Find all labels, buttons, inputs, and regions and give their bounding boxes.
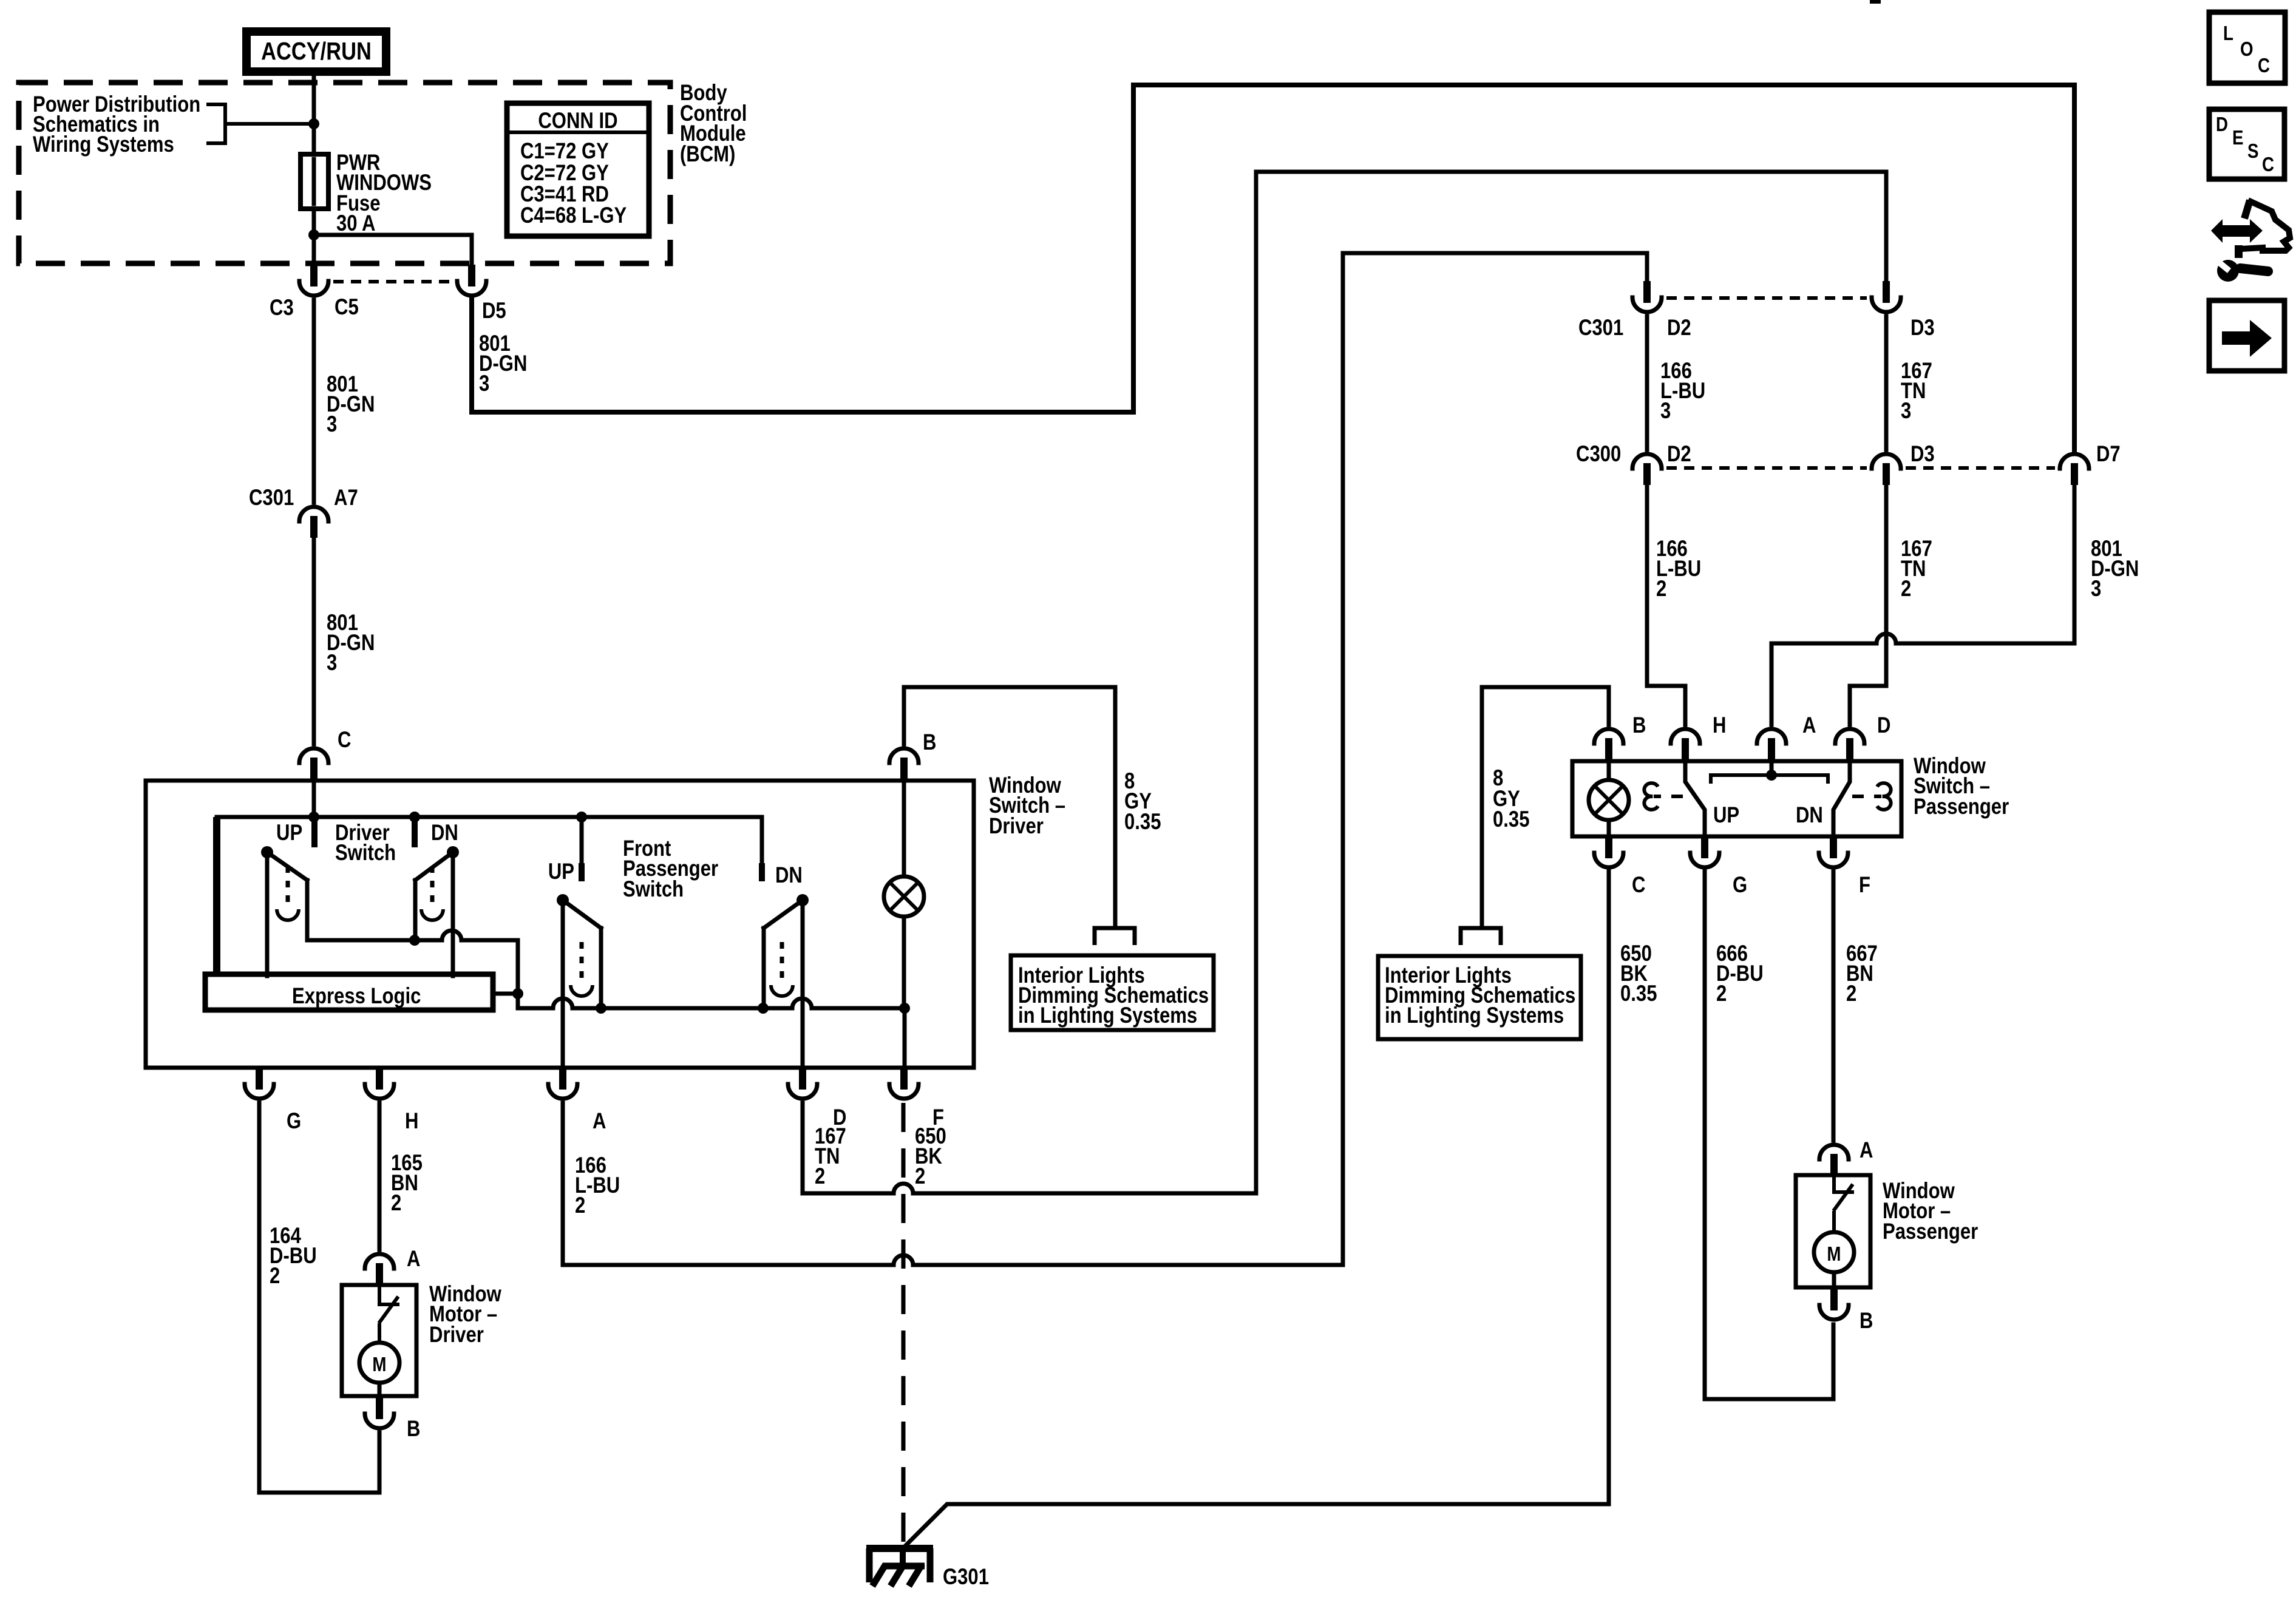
wire 167 TN 3: [1884, 316, 1889, 450]
svg-text:Wiring Systems: Wiring Systems: [33, 132, 174, 157]
svg-text:(BCM): (BCM): [680, 142, 735, 167]
mechanical link bracket: [1711, 775, 1828, 784]
svg-text:G: G: [287, 1109, 301, 1134]
wire passenger section common rail: [518, 1006, 905, 1011]
svg-text:ACCY/RUN: ACCY/RUN: [261, 38, 372, 65]
label 801 D-GN 3: [327, 372, 375, 437]
svg-text:C: C: [338, 728, 351, 753]
connector D passenger switch: [1835, 729, 1864, 760]
svg-text:UP: UP: [548, 859, 574, 884]
svg-text:30 A: 30 A: [336, 211, 375, 236]
connector H passenger switch: [1671, 729, 1700, 760]
svg-text:D: D: [2216, 114, 2228, 136]
icon arrow: [2209, 300, 2284, 371]
svg-text:Passenger: Passenger: [1883, 1219, 1978, 1244]
wire D passenger DN pivot to connector: [801, 900, 805, 1068]
label Body Control Module (BCM): [680, 81, 747, 167]
module BCM dashed outline: [19, 83, 670, 263]
svg-text:D2: D2: [1667, 316, 1691, 341]
label 666 D-BU 2: [1716, 941, 1764, 1006]
wire 166 driver A to C301 D2: [563, 253, 1647, 1265]
label 801 D-GN 3 (D5 branch): [479, 331, 527, 396]
connector B passenger switch: [1594, 729, 1623, 760]
wire dashed connector row C3: [333, 280, 452, 283]
wire hop over 167: [1877, 634, 1896, 643]
svg-text:Express Logic: Express Logic: [292, 984, 421, 1009]
svg-text:3: 3: [479, 371, 489, 396]
connector C passenger switch: [1594, 836, 1623, 867]
wire hop at ground wire: [894, 1184, 913, 1193]
svg-text:B: B: [923, 730, 936, 755]
spring return UP driver: [277, 866, 299, 920]
wire DN pivot to express logic: [451, 852, 455, 976]
connector G passenger switch: [1690, 836, 1719, 867]
switch lever UP driver: [261, 846, 273, 858]
connector A driver switch: [548, 1068, 577, 1099]
svg-text:2: 2: [1846, 981, 1856, 1006]
pointer to interior lights schematic: [1461, 928, 1501, 945]
connector C301 D3: [1872, 281, 1901, 312]
contact UP driver: [311, 819, 318, 844]
svg-text:C301: C301: [249, 486, 294, 510]
switch lever DN passenger section: [796, 894, 809, 906]
switch lever UP passenger: [1685, 761, 1705, 836]
connector C301 D2: [1632, 281, 1662, 312]
svg-text:2: 2: [575, 1193, 585, 1218]
svg-text:D2: D2: [1667, 442, 1691, 467]
svg-text:G301: G301: [943, 1565, 989, 1590]
wire C into box: [312, 781, 316, 817]
wire hop at ground wire: [894, 1255, 913, 1265]
svg-text:B: B: [1860, 1309, 1873, 1334]
connector C3/C5: [299, 265, 328, 296]
svg-text:D3: D3: [1911, 316, 1935, 341]
svg-text:M: M: [372, 1354, 386, 1376]
label 8 GY 0.35: [1493, 766, 1529, 832]
wire lever common rail: [307, 940, 518, 1008]
wire hop over A wire: [553, 998, 572, 1008]
wire 8 GY passenger lamp feed: [1482, 687, 1609, 927]
box Interior Lights Dimming Schematics: [1378, 956, 1581, 1039]
connector F passenger switch: [1819, 836, 1848, 867]
connector B window motor driver: [365, 1397, 394, 1428]
connector C driver switch: [299, 748, 328, 779]
svg-text:UP: UP: [1713, 803, 1739, 828]
label 167 TN 2: [815, 1124, 846, 1189]
label Power Distribution Schematics in Wiring Systems: [33, 92, 200, 157]
driver switch internal feed rail: [217, 815, 762, 819]
connector H driver switch: [365, 1068, 394, 1099]
connector C300 D2: [1632, 454, 1662, 485]
label 801 D-GN 3: [327, 611, 375, 676]
wire 166 label left run: [575, 1153, 620, 1218]
node branch to D5: [308, 229, 319, 240]
svg-text:Passenger: Passenger: [1914, 795, 2009, 819]
motor window motor passenger: [1796, 1175, 1870, 1287]
svg-text:2: 2: [270, 1264, 280, 1289]
wire dashed connector row C301: [1666, 296, 1867, 300]
wire 801 C5 to C301: [312, 300, 316, 503]
switch lever DN passenger: [1833, 761, 1850, 836]
contact DN passenger section: [760, 817, 764, 866]
svg-text:DN: DN: [775, 863, 803, 888]
svg-text:C4=68 L-GY: C4=68 L-GY: [520, 203, 627, 228]
label 167 TN 2: [1901, 537, 1932, 602]
svg-text:D7: D7: [2096, 442, 2121, 467]
connector C300 D7: [2060, 454, 2089, 485]
svg-text:H: H: [1713, 713, 1726, 738]
node rail junctions: [308, 812, 319, 822]
label 166 L-BU 2: [1656, 537, 1701, 602]
svg-text:C301: C301: [1578, 316, 1623, 341]
wire hop over D wire: [792, 998, 812, 1008]
svg-text:2: 2: [815, 1164, 825, 1189]
svg-text:0.35: 0.35: [1124, 810, 1161, 835]
connector F driver switch: [889, 1068, 919, 1099]
spring return UP passenger section: [571, 942, 593, 996]
pointer to interior lights schematic: [1095, 928, 1135, 945]
label 801 D-GN 3: [2091, 537, 2139, 602]
label 650 BK 0.35: [1620, 941, 1657, 1006]
svg-text:A: A: [593, 1109, 606, 1134]
svg-text:A: A: [1860, 1138, 1873, 1163]
svg-text:C: C: [2258, 55, 2270, 77]
connector B driver switch: [889, 748, 919, 779]
svg-text:UP: UP: [276, 821, 302, 846]
svg-text:in Lighting Systems: in Lighting Systems: [1385, 1003, 1564, 1028]
svg-text:M: M: [1827, 1243, 1841, 1266]
svg-text:H: H: [405, 1109, 418, 1134]
wire hop over DN pivot: [442, 931, 461, 940]
svg-text:C5: C5: [335, 295, 359, 320]
connector C301 A7: [299, 507, 328, 538]
motor window motor driver: [342, 1285, 416, 1396]
svg-text:C: C: [1632, 873, 1645, 898]
svg-text:A: A: [407, 1247, 420, 1272]
wire 164 D-BU 2 motor return: [259, 1103, 379, 1493]
box Express Logic: [205, 974, 493, 1010]
svg-text:0.35: 0.35: [1493, 807, 1529, 832]
box Interior Lights Dimming Schematics: [1011, 955, 1214, 1030]
wire UP pivot to express logic: [265, 852, 270, 976]
node DN tip junction: [409, 935, 420, 946]
wire ACCY/RUN to fuse: [312, 73, 316, 265]
svg-text:3: 3: [1660, 399, 1671, 424]
svg-text:D: D: [1877, 713, 1890, 738]
svg-text:D3: D3: [1911, 442, 1935, 467]
svg-text:O: O: [2240, 38, 2254, 61]
spring return DN driver: [421, 866, 443, 920]
page edge mark: [1870, 0, 1881, 4]
svg-text:S: S: [2247, 140, 2258, 163]
label 667 BN 2: [1846, 941, 1878, 1006]
lamp passenger switch illumination: [1607, 761, 1611, 780]
mechanical link lamp: [1644, 783, 1658, 810]
svg-text:2: 2: [1656, 577, 1666, 602]
label Front Passenger Switch: [623, 836, 718, 902]
connector D driver switch: [788, 1068, 817, 1099]
wire 801 A7 to driver switch C: [312, 538, 316, 744]
label Window Switch - Passenger: [1914, 754, 2009, 819]
icon DESC: [2209, 109, 2284, 179]
wire 801 D-GN 3 D7 to passenger switch A: [1771, 485, 2074, 725]
svg-text:0.35: 0.35: [1620, 981, 1657, 1006]
connector A window motor passenger: [1819, 1145, 1849, 1176]
svg-text:Driver: Driver: [989, 814, 1044, 839]
label 167 TN 3: [1901, 359, 1932, 424]
svg-text:C3: C3: [270, 296, 294, 320]
contact DN driver: [412, 819, 418, 844]
wire express logic stub: [492, 992, 518, 996]
svg-text:F: F: [1859, 873, 1870, 898]
connector C300 D3: [1872, 454, 1901, 485]
connector B window motor passenger: [1819, 1289, 1849, 1320]
switch lever DN driver: [447, 846, 459, 858]
connector G driver switch: [245, 1068, 274, 1099]
fuse PWR WINDOWS 30A: [301, 154, 328, 209]
label 650 BK 2: [915, 1124, 946, 1189]
svg-text:A: A: [1802, 713, 1816, 738]
svg-text:L: L: [2223, 22, 2233, 45]
connector D5: [457, 265, 486, 296]
svg-text:C1=72 GY: C1=72 GY: [520, 139, 609, 164]
mechanical link DN: [1852, 795, 1881, 798]
wire rail to express logic: [213, 817, 220, 976]
wire 165 BN 2 to driver motor: [378, 1103, 382, 1250]
node power distribution tap: [308, 118, 319, 129]
contact UP passenger section: [580, 817, 584, 866]
wire 650 BK 2 dashed to ground: [902, 1103, 906, 1545]
label 8 GY 0.35: [1124, 769, 1161, 835]
svg-text:DN: DN: [1796, 803, 1823, 828]
lamp driver switch illumination: [902, 781, 906, 876]
label Driver Switch: [335, 821, 396, 866]
svg-text:Switch: Switch: [335, 841, 396, 866]
icon schematic hand with wrench: [2211, 200, 2290, 282]
label Window Motor - Passenger: [1883, 1179, 1978, 1244]
node stub junction: [512, 988, 523, 999]
wire branch to D5: [314, 235, 472, 265]
wire 167 TN 2 to passenger switch D: [1850, 485, 1886, 725]
svg-text:B: B: [1632, 713, 1646, 738]
wire dashed connector row C300: [1666, 466, 2055, 470]
svg-text:2: 2: [915, 1164, 925, 1189]
wire A to bracket: [1770, 761, 1774, 775]
svg-text:D5: D5: [482, 299, 506, 324]
svg-text:Driver: Driver: [429, 1323, 484, 1347]
node common rail junctions: [596, 1003, 606, 1014]
svg-text:2: 2: [391, 1191, 401, 1216]
svg-text:3: 3: [2091, 577, 2101, 602]
label Window Switch - Driver: [989, 773, 1065, 839]
passenger window switch box: [1572, 761, 1901, 836]
svg-text:2: 2: [1901, 577, 1911, 602]
svg-text:A7: A7: [334, 486, 358, 510]
svg-text:E: E: [2232, 127, 2243, 149]
svg-text:Switch: Switch: [623, 877, 684, 902]
bracket pointer to power distribution: [206, 104, 311, 143]
spring return DN passenger section: [771, 942, 793, 996]
svg-text:3: 3: [1901, 399, 1911, 424]
label 166 L-BU 3: [1660, 359, 1705, 424]
connector A window motor driver: [365, 1254, 394, 1285]
wire 801 D5 branch long run to D7: [472, 85, 2074, 450]
driver window switch box: [146, 781, 974, 1068]
connector A passenger switch: [1757, 729, 1786, 760]
switch lever UP passenger section: [557, 894, 569, 906]
svg-text:B: B: [407, 1417, 420, 1442]
wire 166 L-BU 3: [1645, 316, 1649, 450]
label PWR WINDOWS Fuse 30 A: [336, 151, 432, 236]
svg-text:G: G: [1733, 873, 1747, 898]
ground G301: [866, 1545, 933, 1586]
svg-text:3: 3: [327, 412, 337, 437]
svg-text:CONN ID: CONN ID: [538, 109, 617, 134]
svg-text:C300: C300: [1576, 442, 1621, 467]
label 165 BN 2: [391, 1151, 423, 1216]
wire 8 GY driver lamp feed: [904, 687, 1115, 927]
wire ground run from passenger switch C: [906, 870, 1609, 1545]
wire 666 D-BU 2 to passenger motor B: [1705, 870, 1833, 1399]
table CONN ID: [507, 103, 649, 236]
wire 167 driver D to C300 D3: [803, 172, 1886, 1193]
icon LOC: [2209, 12, 2285, 83]
wire A passenger UP pivot to connector: [561, 900, 565, 1068]
svg-text:in Lighting Systems: in Lighting Systems: [1018, 1003, 1197, 1028]
label 164 D-BU 2: [270, 1224, 317, 1289]
wire 667 BN 2 to passenger motor A: [1832, 870, 1836, 1141]
svg-text:3: 3: [327, 651, 337, 676]
wire 166 L-BU 2 to passenger switch H: [1647, 485, 1685, 725]
svg-text:C: C: [2262, 154, 2274, 176]
power symbol ACCY/RUN: [246, 32, 386, 72]
svg-text:DN: DN: [431, 821, 458, 846]
svg-text:2: 2: [1716, 981, 1727, 1006]
label Window Motor - Driver: [429, 1282, 501, 1347]
